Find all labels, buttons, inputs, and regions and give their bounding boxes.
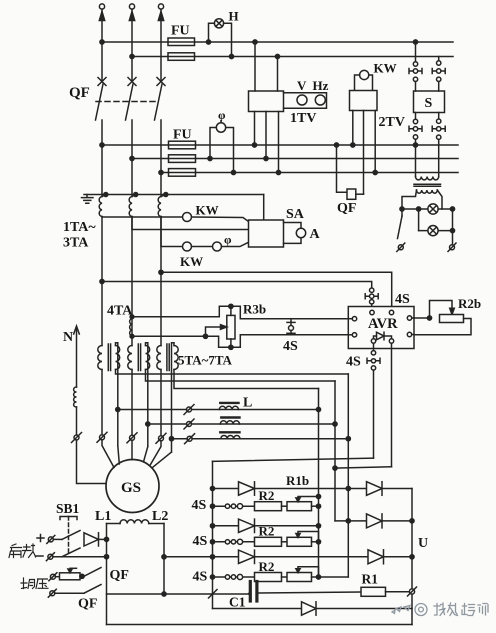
switch reactor line 1: [187, 407, 192, 412]
wire SA to A rails: [284, 223, 302, 244]
wiper R3b: [206, 327, 222, 336]
AVR terminal top-left: [370, 310, 374, 314]
watermark text 技成培训: [434, 603, 488, 616]
pot R3b: [227, 315, 235, 339]
wire AVR-br link to v2: [335, 467, 392, 468]
wire T secondary left: [402, 190, 417, 209]
diode row1 small: [239, 482, 255, 495]
node pot1/v1: [316, 504, 320, 508]
contact row2: [225, 540, 229, 544]
wire lamp H right leg: [224, 23, 232, 56]
svg-text:L1: L1: [95, 509, 111, 524]
switch reactor line 2: [187, 422, 192, 427]
wire 6TA sec top riser: [146, 343, 148, 447]
node phi-left/l2: [208, 156, 212, 160]
resistor R1: [361, 587, 386, 596]
node reactor3 takeoff: [169, 437, 173, 441]
wire phi2 to SA: [222, 242, 249, 246]
terminal equalize 1: [50, 574, 55, 579]
node 1TV-s1/l1: [252, 143, 256, 147]
wire lamp right rail: [452, 209, 454, 245]
node row2d/v1: [316, 524, 320, 528]
svg-text:A: A: [310, 227, 321, 242]
svg-text:4TA: 4TA: [107, 304, 133, 319]
terminal lamp right: [450, 245, 455, 250]
wire CT1 to KW1: [102, 216, 182, 218]
node field/row3d: [162, 555, 166, 559]
node Sleft/l1: [413, 143, 417, 147]
wire bottom line: [107, 624, 413, 626]
svg-text:R2: R2: [259, 488, 275, 503]
svg-text:GS: GS: [121, 480, 141, 496]
node pot/blade: [80, 574, 84, 578]
label equalize 压: [36, 579, 48, 589]
meas line 3: [161, 172, 458, 174]
phase L3 incomer terminal: [158, 4, 163, 9]
meter phi (top): [216, 123, 225, 132]
svg-text:1TV: 1TV: [290, 111, 316, 126]
wire phase L2 lower: [131, 217, 133, 346]
wire lamp H left leg: [209, 23, 215, 42]
wire rectifier left rail: [212, 461, 214, 594]
switch phase3: [159, 436, 164, 441]
wire KW1 to SA: [192, 217, 249, 222]
svg-text:1TA~: 1TA~: [63, 220, 96, 235]
AVR terminal bottom-right: [389, 339, 393, 343]
node v3/row1d: [346, 486, 350, 490]
switch phase2: [130, 435, 135, 440]
contact 4S (above AVR): [370, 288, 374, 292]
wire pot3 right to v3: [312, 576, 349, 578]
AVR terminal right-2: [407, 332, 411, 336]
pot R1b row3: [282, 576, 288, 578]
fuse FU (bus2): [168, 53, 195, 61]
node 4TA top/phase2: [130, 315, 134, 319]
lamp 2: [428, 226, 438, 236]
node feed-a/phase3: [159, 270, 163, 274]
node rail/row3d: [210, 555, 214, 559]
wire CT3 to KW2: [161, 217, 182, 247]
CT secondary common wire: [84, 194, 264, 196]
transformer T secondary coil: [417, 190, 438, 193]
wire nest v3: [347, 374, 349, 577]
svg-text:S: S: [425, 96, 433, 111]
node QFaux/l1: [334, 143, 338, 147]
wire AVR-bl link to rail: [213, 458, 374, 461]
svg-text:2TV: 2TV: [379, 115, 405, 130]
svg-text:R3b: R3b: [243, 302, 266, 317]
breaker QF pole 2 X: [128, 78, 136, 86]
meter KW 2: [183, 242, 192, 251]
wire phase L2 mid: [131, 120, 133, 197]
pot R1b row2: [282, 541, 288, 543]
diode Da: [367, 482, 383, 496]
svg-text:R2: R2: [259, 524, 275, 539]
node rail/row3r: [210, 575, 214, 579]
wire phase L2 upper: [131, 9, 133, 81]
node rail/row1r: [210, 504, 214, 508]
phase L2 incomer terminal: [129, 4, 134, 9]
svg-text:KW: KW: [374, 61, 397, 76]
wire phase L1 mid: [101, 120, 103, 197]
wire Db line: [335, 520, 412, 522]
wire C1 to R1: [259, 592, 361, 593]
wire 2TV leg c: [374, 111, 376, 173]
meter KW 1: [183, 213, 192, 222]
reactor L (1): [220, 402, 238, 404]
wire R2b return: [414, 319, 471, 335]
meas line 1: [102, 144, 458, 146]
CT 3TA (phase3): [158, 197, 161, 217]
svg-text:FU: FU: [173, 128, 192, 143]
node start/field-left: [104, 537, 108, 541]
wire reactor line 3: [172, 438, 188, 440]
node R3b top: [229, 304, 233, 308]
watermark logo: [392, 604, 427, 616]
fuse FU (bus1): [168, 38, 195, 46]
svg-text:5TA~7TA: 5TA~7TA: [178, 353, 233, 368]
svg-text:AVR: AVR: [368, 316, 398, 332]
meter phi 2: [213, 242, 222, 251]
node l1/phase1: [100, 143, 104, 147]
label minus: [36, 555, 43, 557]
node lamprow1 mid: [417, 207, 421, 211]
AVR terminal right-1: [407, 316, 411, 320]
wire phi right leg: [226, 128, 234, 173]
wire rectifier right rail: [411, 489, 413, 625]
meter A: [296, 228, 305, 237]
contact row1: [225, 504, 229, 508]
label equalize 均: [21, 578, 35, 589]
node 1TV-a/bus1: [253, 40, 257, 44]
breaker QF pole 3 blade: [155, 84, 163, 120]
wire S right column lower: [438, 139, 440, 176]
svg-text:V: V: [297, 78, 307, 93]
svg-text:C1: C1: [229, 595, 246, 610]
svg-text:L2: L2: [152, 509, 168, 524]
wire phase L3 to switch: [160, 370, 162, 436]
transformer 6TA: [128, 346, 132, 370]
AVR terminal top-right: [389, 310, 393, 314]
CT 4TA (phase2): [130, 319, 132, 336]
phase L1 arrow: [99, 12, 104, 21]
svg-text:L: L: [243, 396, 252, 411]
contact S left upper: [413, 62, 417, 66]
node rail-right/Dc: [410, 555, 414, 559]
generator GS: [106, 460, 159, 513]
capacitor C1: [249, 582, 252, 602]
link slash mark: [209, 590, 218, 599]
node l2/phase2: [130, 156, 134, 160]
pushbutton SB1 bracket: [60, 517, 77, 520]
lamp 1: [428, 204, 438, 214]
wire N to GS: [77, 440, 107, 484]
svg-text:4S: 4S: [395, 292, 410, 307]
node 4TA bot/phase2: [130, 334, 134, 338]
node rail/row2r: [210, 540, 214, 544]
bus 2 (control bus B): [132, 56, 453, 58]
switch reactor line 3: [187, 436, 192, 441]
diode row3 small: [239, 550, 255, 563]
wire QF aux drop from l1: [337, 145, 348, 192]
svg-text:R2b: R2b: [458, 296, 481, 311]
node reactor1 takeoff: [116, 407, 120, 411]
wire KW2 to phi2: [192, 246, 213, 248]
wire row1 diode line: [213, 488, 413, 490]
contact 4S (below AVR): [373, 343, 375, 350]
node feed-b/phase1: [100, 279, 104, 283]
wire phase L3 upper: [160, 9, 162, 81]
node field-bot right leg: [162, 592, 166, 596]
svg-text:R1: R1: [362, 572, 379, 587]
transformer 1TV box: [249, 91, 284, 112]
wire N with arrow: [74, 326, 80, 334]
node lamprow2 right: [450, 229, 454, 233]
label start 动: [23, 544, 36, 558]
node v1/reactor1: [316, 407, 320, 411]
svg-text:U: U: [418, 536, 428, 551]
svg-text:H: H: [229, 9, 239, 24]
AVR box: [348, 307, 414, 349]
switch (N line): [74, 435, 79, 440]
terminal start -: [48, 554, 53, 559]
breaker QF pole 3 X: [157, 78, 165, 86]
wire AVR feed b (phase1): [102, 282, 372, 289]
switch lamp test blade: [401, 209, 403, 216]
node bus2/phase2: [130, 54, 134, 58]
wire 5TA sec bottom to nest h1: [116, 370, 349, 375]
contact QF aux box: [347, 189, 356, 199]
reactor L (2): [221, 416, 239, 418]
wire QF aux to 2TV: [356, 193, 364, 195]
wire reactor line 2: [148, 423, 187, 425]
pot equalize: [60, 573, 81, 580]
node phi-right/l3: [231, 170, 235, 174]
wire nest v1: [318, 389, 320, 578]
diode start: [84, 533, 99, 546]
AVR terminal bottom-left: [371, 339, 375, 343]
fuse FU2 b: [169, 155, 196, 163]
bus 1 (control bus A): [102, 41, 453, 43]
wire 7TA sec bottom to nest h3: [174, 370, 319, 389]
CT 1TA (phase1): [99, 197, 102, 217]
pushbutton SB1 stem (dashed): [68, 517, 70, 555]
resistor R2 row2: [255, 537, 282, 546]
field winding L1-L2 coil: [107, 523, 121, 525]
label plus: [37, 535, 44, 542]
wire pot1 right to v1: [312, 505, 319, 507]
label start 启: [9, 544, 22, 558]
node v2/link: [333, 466, 337, 470]
switch QF eq 2 blade: [84, 585, 101, 594]
wire riser3 into GS: [153, 452, 172, 468]
wire to pot: [55, 576, 59, 578]
reactor L (3): [220, 431, 239, 433]
wire 1TV primary leg b: [277, 57, 279, 92]
node Sleft/bus1: [413, 40, 417, 44]
wire 1TV secondary leg 3: [278, 112, 280, 173]
terminal rail circle-slash: [409, 589, 414, 594]
wire phase L1 lower: [101, 217, 103, 346]
diode bottom: [302, 602, 317, 615]
node v3/reactor3: [346, 437, 350, 441]
wire pot2 right: [312, 541, 319, 543]
svg-text:KW: KW: [196, 203, 219, 218]
wire CT common to SA corner: [263, 195, 265, 221]
switch phase1: [100, 435, 105, 440]
wire bottom diode line: [213, 608, 413, 610]
svg-text:3TA: 3TA: [63, 236, 89, 251]
contact 4S (R3b line, bridging): [290, 319, 292, 326]
meter Hz: [315, 95, 325, 105]
wire lamp row 1: [402, 208, 453, 210]
svg-text:4S: 4S: [283, 339, 298, 354]
pot R1b row1: [282, 505, 288, 507]
CT 2TA (phase2): [129, 197, 132, 217]
wire field bottom to C1 line: [248, 593, 250, 596]
wire field left leg: [106, 524, 108, 625]
wire phase L1 to switch: [101, 370, 103, 435]
svg-text:4S: 4S: [193, 570, 208, 585]
resistor R2 row1: [255, 502, 282, 511]
node CT3 top: [164, 193, 168, 197]
node 1TV-s2/l2: [264, 156, 268, 160]
meas line 2: [132, 158, 458, 160]
wire V/Hz meter rails: [284, 93, 327, 109]
wire 4TA secondary bottom: [132, 335, 348, 348]
transformer 5TA: [98, 346, 102, 370]
wire phi left leg: [210, 128, 216, 159]
node v3/Db: [346, 519, 350, 523]
switch S box: [414, 91, 445, 113]
diode Db: [367, 514, 383, 528]
wire phase1 into GS: [102, 440, 114, 468]
wire 5TA sec top riser: [116, 343, 118, 446]
wire R3b bottom stub: [230, 339, 232, 347]
wire S left column lower: [415, 139, 417, 176]
node v1/row3r: [316, 575, 320, 579]
phase L1 incomer terminal: [99, 4, 104, 9]
wire S left column upper: [415, 42, 417, 62]
breaker QF linkage (dashed): [96, 101, 159, 103]
AVR terminal left-2: [352, 333, 356, 337]
node lamp-left/bus1: [206, 40, 210, 44]
terminal start +: [48, 537, 53, 542]
transformer T (lamps) primary coil: [416, 177, 439, 180]
wire riser2 into GS: [144, 447, 148, 462]
wire 1TV secondary leg 1: [254, 112, 256, 146]
svg-text:KW: KW: [180, 254, 203, 269]
diode (inside AVR): [374, 336, 377, 339]
node rail/row2d: [210, 524, 214, 528]
transformer 7TA: [157, 346, 161, 370]
wire start +: [53, 538, 62, 540]
breaker QF pole 1 X: [98, 78, 106, 86]
svg-text:FU: FU: [171, 24, 190, 39]
wire row3 R2 line: [213, 576, 255, 578]
node 1TV-b/bus2: [275, 54, 279, 58]
terminal lamp left: [398, 245, 403, 250]
node 2TV-c/l3: [373, 170, 377, 174]
switch SA box: [249, 220, 284, 247]
fuse FU2 c: [169, 169, 196, 177]
wire AVR feed a (phase3): [161, 272, 392, 310]
svg-text:QF: QF: [337, 201, 356, 216]
resistor R2 row3: [255, 573, 282, 582]
wire row2 R2 line: [213, 541, 255, 543]
contact S left lower: [415, 113, 417, 120]
wire phase2 into GS: [131, 440, 133, 459]
wire row2 diode line: [213, 525, 319, 527]
phase L2 arrow: [129, 12, 134, 21]
node CT2 top: [134, 193, 138, 197]
meter KW (top): [360, 70, 369, 79]
node lamprow1 right: [450, 207, 454, 211]
transformer 2TV box: [350, 91, 378, 111]
wire nest v2: [334, 381, 336, 521]
pot R2b: [414, 317, 430, 319]
node CT1 top: [104, 193, 108, 197]
wire 7TA sec top riser: [172, 343, 175, 452]
contact S right upper: [437, 61, 441, 65]
diode row2 small: [239, 519, 255, 532]
svg-text:QF: QF: [69, 85, 90, 101]
node wiper/4TA-bot: [203, 334, 207, 338]
svg-text:R2: R2: [259, 559, 275, 574]
svg-text:N: N: [63, 330, 73, 345]
svg-text:φ: φ: [224, 233, 232, 247]
svg-text:SB1: SB1: [56, 501, 80, 516]
wire phase L1 upper: [101, 9, 103, 81]
wire phase L3 mid: [160, 120, 162, 197]
node 2TV-a/l1: [351, 143, 355, 147]
wire row3 diode line: [164, 556, 412, 558]
node bus1/phase1: [100, 40, 104, 44]
wire KW stubs to 2TV: [355, 75, 373, 91]
node lamprow1 left: [400, 207, 404, 211]
svg-text:QF: QF: [78, 597, 97, 612]
wire 2TV leg a: [352, 111, 354, 146]
wire row1 R2 line: [213, 505, 255, 507]
wire 4TA secondary top: [132, 306, 348, 318]
svg-text:QF: QF: [110, 568, 129, 583]
transformer T core: [414, 184, 441, 186]
wire rail bottom segment: [212, 594, 214, 609]
node rail-right/Db: [410, 519, 414, 523]
contact S right lower: [438, 113, 440, 120]
wire 1TV secondary leg 2: [265, 112, 267, 159]
wire field bottom: [107, 593, 249, 595]
node R3b bottom: [229, 345, 233, 349]
switch SB1 contact 1: [62, 531, 80, 540]
contact row3: [225, 575, 229, 579]
wire AVR-bl drop: [373, 370, 375, 458]
svg-text:4S: 4S: [346, 355, 361, 370]
node 1TV-s3/l3: [276, 170, 280, 174]
wire start -: [53, 556, 107, 558]
wire riser1 into GS: [118, 446, 120, 465]
meter V: [297, 95, 307, 105]
lamp H: [214, 19, 223, 28]
svg-text:Hz: Hz: [313, 78, 329, 93]
wire S right column upper: [438, 57, 440, 61]
wire T secondary right: [437, 190, 442, 209]
svg-text:4S: 4S: [192, 498, 207, 513]
wire equalize 2: [55, 592, 84, 594]
breaker QF pole 1 blade: [96, 84, 104, 120]
ground: [82, 195, 94, 204]
wire 6TA sec bottom to nest h2: [146, 370, 336, 382]
